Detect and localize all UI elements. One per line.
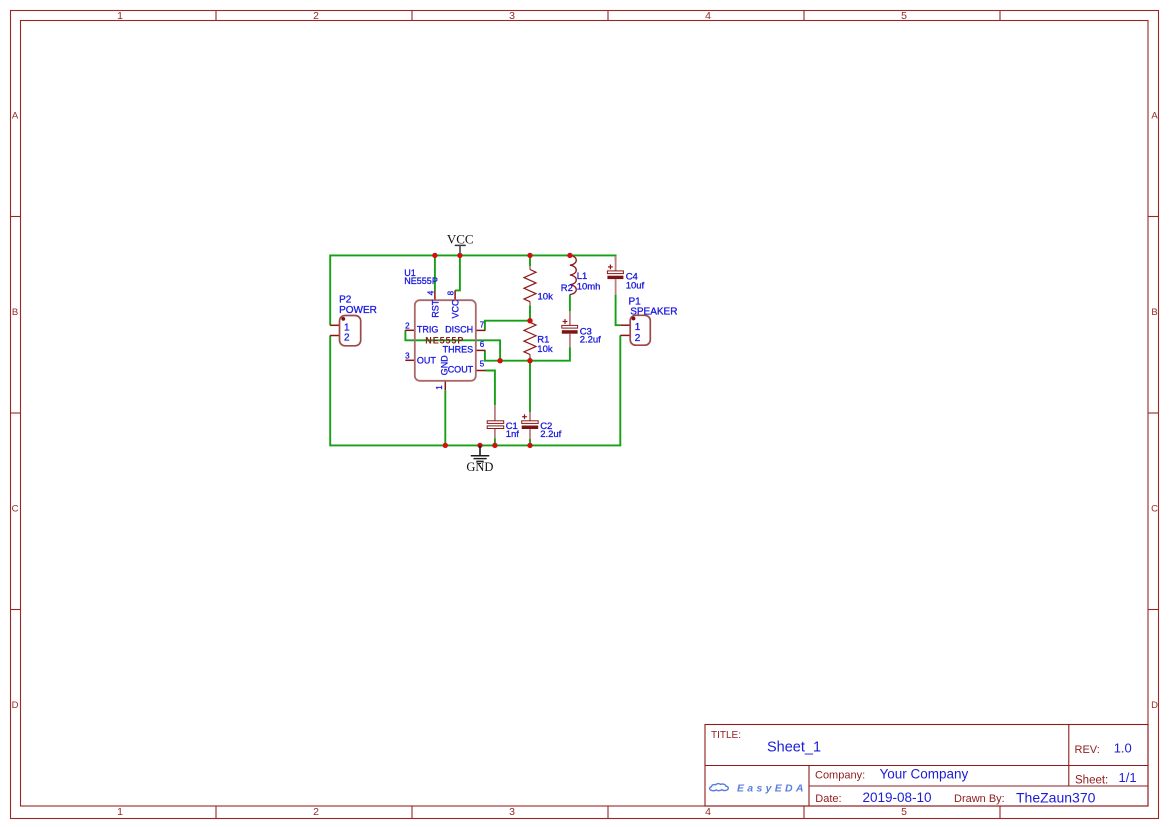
svg-text:5: 5	[480, 360, 485, 369]
svg-text:1: 1	[435, 385, 444, 390]
svg-text:2: 2	[344, 333, 350, 344]
svg-text:Sheet:: Sheet:	[1075, 774, 1108, 786]
svg-text:1nf: 1nf	[506, 429, 520, 440]
svg-text:1.0: 1.0	[1114, 741, 1132, 756]
svg-text:TheZaun370: TheZaun370	[1016, 789, 1096, 805]
svg-text:2.2uf: 2.2uf	[580, 334, 601, 345]
svg-text:Your Company: Your Company	[880, 766, 969, 781]
svg-text:4: 4	[705, 806, 711, 818]
svg-text:10uf: 10uf	[626, 280, 645, 291]
svg-text:2: 2	[635, 333, 641, 344]
svg-text:TRIG: TRIG	[417, 325, 439, 335]
svg-text:7: 7	[480, 321, 485, 330]
svg-text:1/1: 1/1	[1119, 770, 1137, 785]
svg-text:COUT: COUT	[448, 365, 474, 375]
svg-text:GND: GND	[466, 460, 493, 474]
svg-text:RST: RST	[430, 299, 440, 318]
svg-text:5: 5	[901, 10, 907, 22]
svg-text:B: B	[12, 307, 18, 318]
svg-text:VCC: VCC	[451, 299, 461, 319]
svg-text:2: 2	[313, 10, 319, 22]
svg-text:NE555P: NE555P	[404, 276, 438, 286]
svg-text:A: A	[12, 110, 19, 121]
svg-text:3: 3	[405, 352, 410, 361]
svg-text:L1: L1	[577, 271, 588, 282]
svg-text:D: D	[12, 700, 19, 711]
svg-text:Date:: Date:	[815, 793, 841, 805]
svg-text:4: 4	[705, 10, 711, 22]
svg-text:3: 3	[509, 806, 515, 818]
svg-text:8: 8	[446, 290, 455, 295]
svg-text:REV:: REV:	[1075, 744, 1100, 756]
svg-text:GND: GND	[440, 355, 450, 376]
svg-text:Company:: Company:	[815, 769, 865, 781]
svg-text:A: A	[1151, 110, 1158, 121]
svg-text:1: 1	[117, 10, 123, 22]
svg-text:Drawn By:: Drawn By:	[954, 793, 1005, 805]
svg-text:NE555P: NE555P	[425, 335, 464, 345]
svg-text:6: 6	[480, 340, 485, 349]
svg-text:EasyEDA: EasyEDA	[737, 783, 807, 795]
svg-text:SPEAKER: SPEAKER	[630, 307, 677, 318]
svg-text:POWER: POWER	[339, 305, 377, 316]
svg-text:C: C	[12, 503, 19, 514]
svg-text:DISCH: DISCH	[445, 325, 473, 335]
svg-text:OUT: OUT	[417, 356, 437, 366]
svg-text:C: C	[1151, 503, 1158, 514]
svg-text:Sheet_1: Sheet_1	[767, 740, 821, 756]
svg-text:THRES: THRES	[443, 344, 474, 354]
svg-text:2: 2	[405, 322, 410, 331]
svg-text:TITLE:: TITLE:	[711, 730, 741, 741]
svg-text:D: D	[1151, 700, 1158, 711]
svg-text:4: 4	[426, 290, 435, 295]
svg-text:1: 1	[635, 322, 641, 333]
svg-text:10k: 10k	[538, 292, 554, 303]
svg-text:2: 2	[313, 806, 319, 818]
svg-text:5: 5	[901, 806, 907, 818]
svg-text:VCC: VCC	[447, 231, 474, 246]
svg-text:R2: R2	[561, 283, 573, 294]
svg-text:2.2uf: 2.2uf	[540, 429, 561, 440]
svg-text:3: 3	[509, 10, 515, 22]
svg-text:10mh: 10mh	[577, 282, 601, 293]
svg-text:1: 1	[117, 806, 123, 818]
svg-text:2019-08-10: 2019-08-10	[863, 790, 932, 805]
svg-text:10k: 10k	[537, 344, 553, 355]
svg-text:B: B	[1151, 307, 1157, 318]
